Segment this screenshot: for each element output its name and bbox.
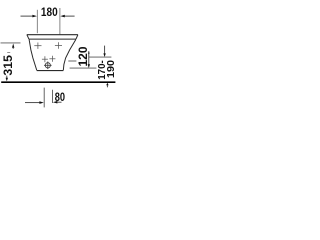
left dimension 315: lower arrowhead pointing down at floor (6, 78, 8, 82)
bidet rim right edge (76, 35, 78, 39)
left dimension 315: top extension line (1, 42, 21, 44)
svg-text:180: 180 (41, 5, 58, 19)
left dimension 315: lower arrow stem (6, 76, 8, 79)
bottom dimension 80: right arrowhead pointing left (53, 101, 58, 104)
bottom dimension 80: left arrow tail (25, 102, 40, 104)
top dimension 180: left arrow tail (21, 15, 34, 17)
bottom dimension 80: left arrowhead pointing right (39, 101, 43, 104)
bidet rim left edge (27, 35, 29, 39)
bidet rim bottom line (29, 38, 76, 40)
top dimension 180: right extension line (59, 8, 61, 34)
bidet body right slant (63, 39, 76, 70)
svg-text:80: 80 (55, 90, 66, 104)
bidet rim top line (27, 34, 78, 36)
upper fixing hole left cross (34, 43, 41, 49)
right dimension 120: lower arrowhead pointing down (88, 64, 90, 68)
right dimension 120: dimension line (88, 51, 90, 54)
right dimension 170-190: upper arrow tail (104, 46, 106, 54)
top dimension 180: left extension line (36, 10, 38, 33)
right dimension 170-190: lower arrowhead pointing up at floor from below (106, 83, 108, 86)
extension line at connection level (89, 56, 111, 58)
lower extension line right of body (70, 67, 97, 69)
drain level leader dash (68, 60, 76, 62)
top dimension 180: left arrowhead (32, 15, 37, 18)
bottom dimension 80: left extension line (43, 88, 45, 108)
left dimension 315: dimension line stub above text (7, 52, 10, 54)
left dimension 315: upper arrow stem (12, 47, 14, 49)
drain circle with crosshair (44, 62, 52, 70)
floor line (1, 81, 115, 83)
top dimension 180: right arrow tail (64, 15, 74, 17)
top dimension 180: right arrowhead (60, 15, 65, 18)
lower hole right cross (49, 56, 55, 62)
right dimension 170-190: upper arrowhead pointing down (103, 53, 105, 57)
bottom dimension 80: right extension line (52, 90, 54, 103)
right dimension 170-190: lower arrow tail (106, 85, 108, 87)
svg-text:315: 315 (1, 55, 15, 76)
bidet body left slant (29, 39, 37, 70)
bottom dimension 80: right arrow tail (57, 101, 62, 103)
upper fixing hole right cross (55, 42, 62, 48)
bidet body bottom edge (37, 70, 64, 72)
lower hole left cross (42, 56, 48, 62)
svg-text:190: 190 (106, 60, 117, 78)
left dimension 315: upper arrowhead pointing up (12, 44, 14, 48)
